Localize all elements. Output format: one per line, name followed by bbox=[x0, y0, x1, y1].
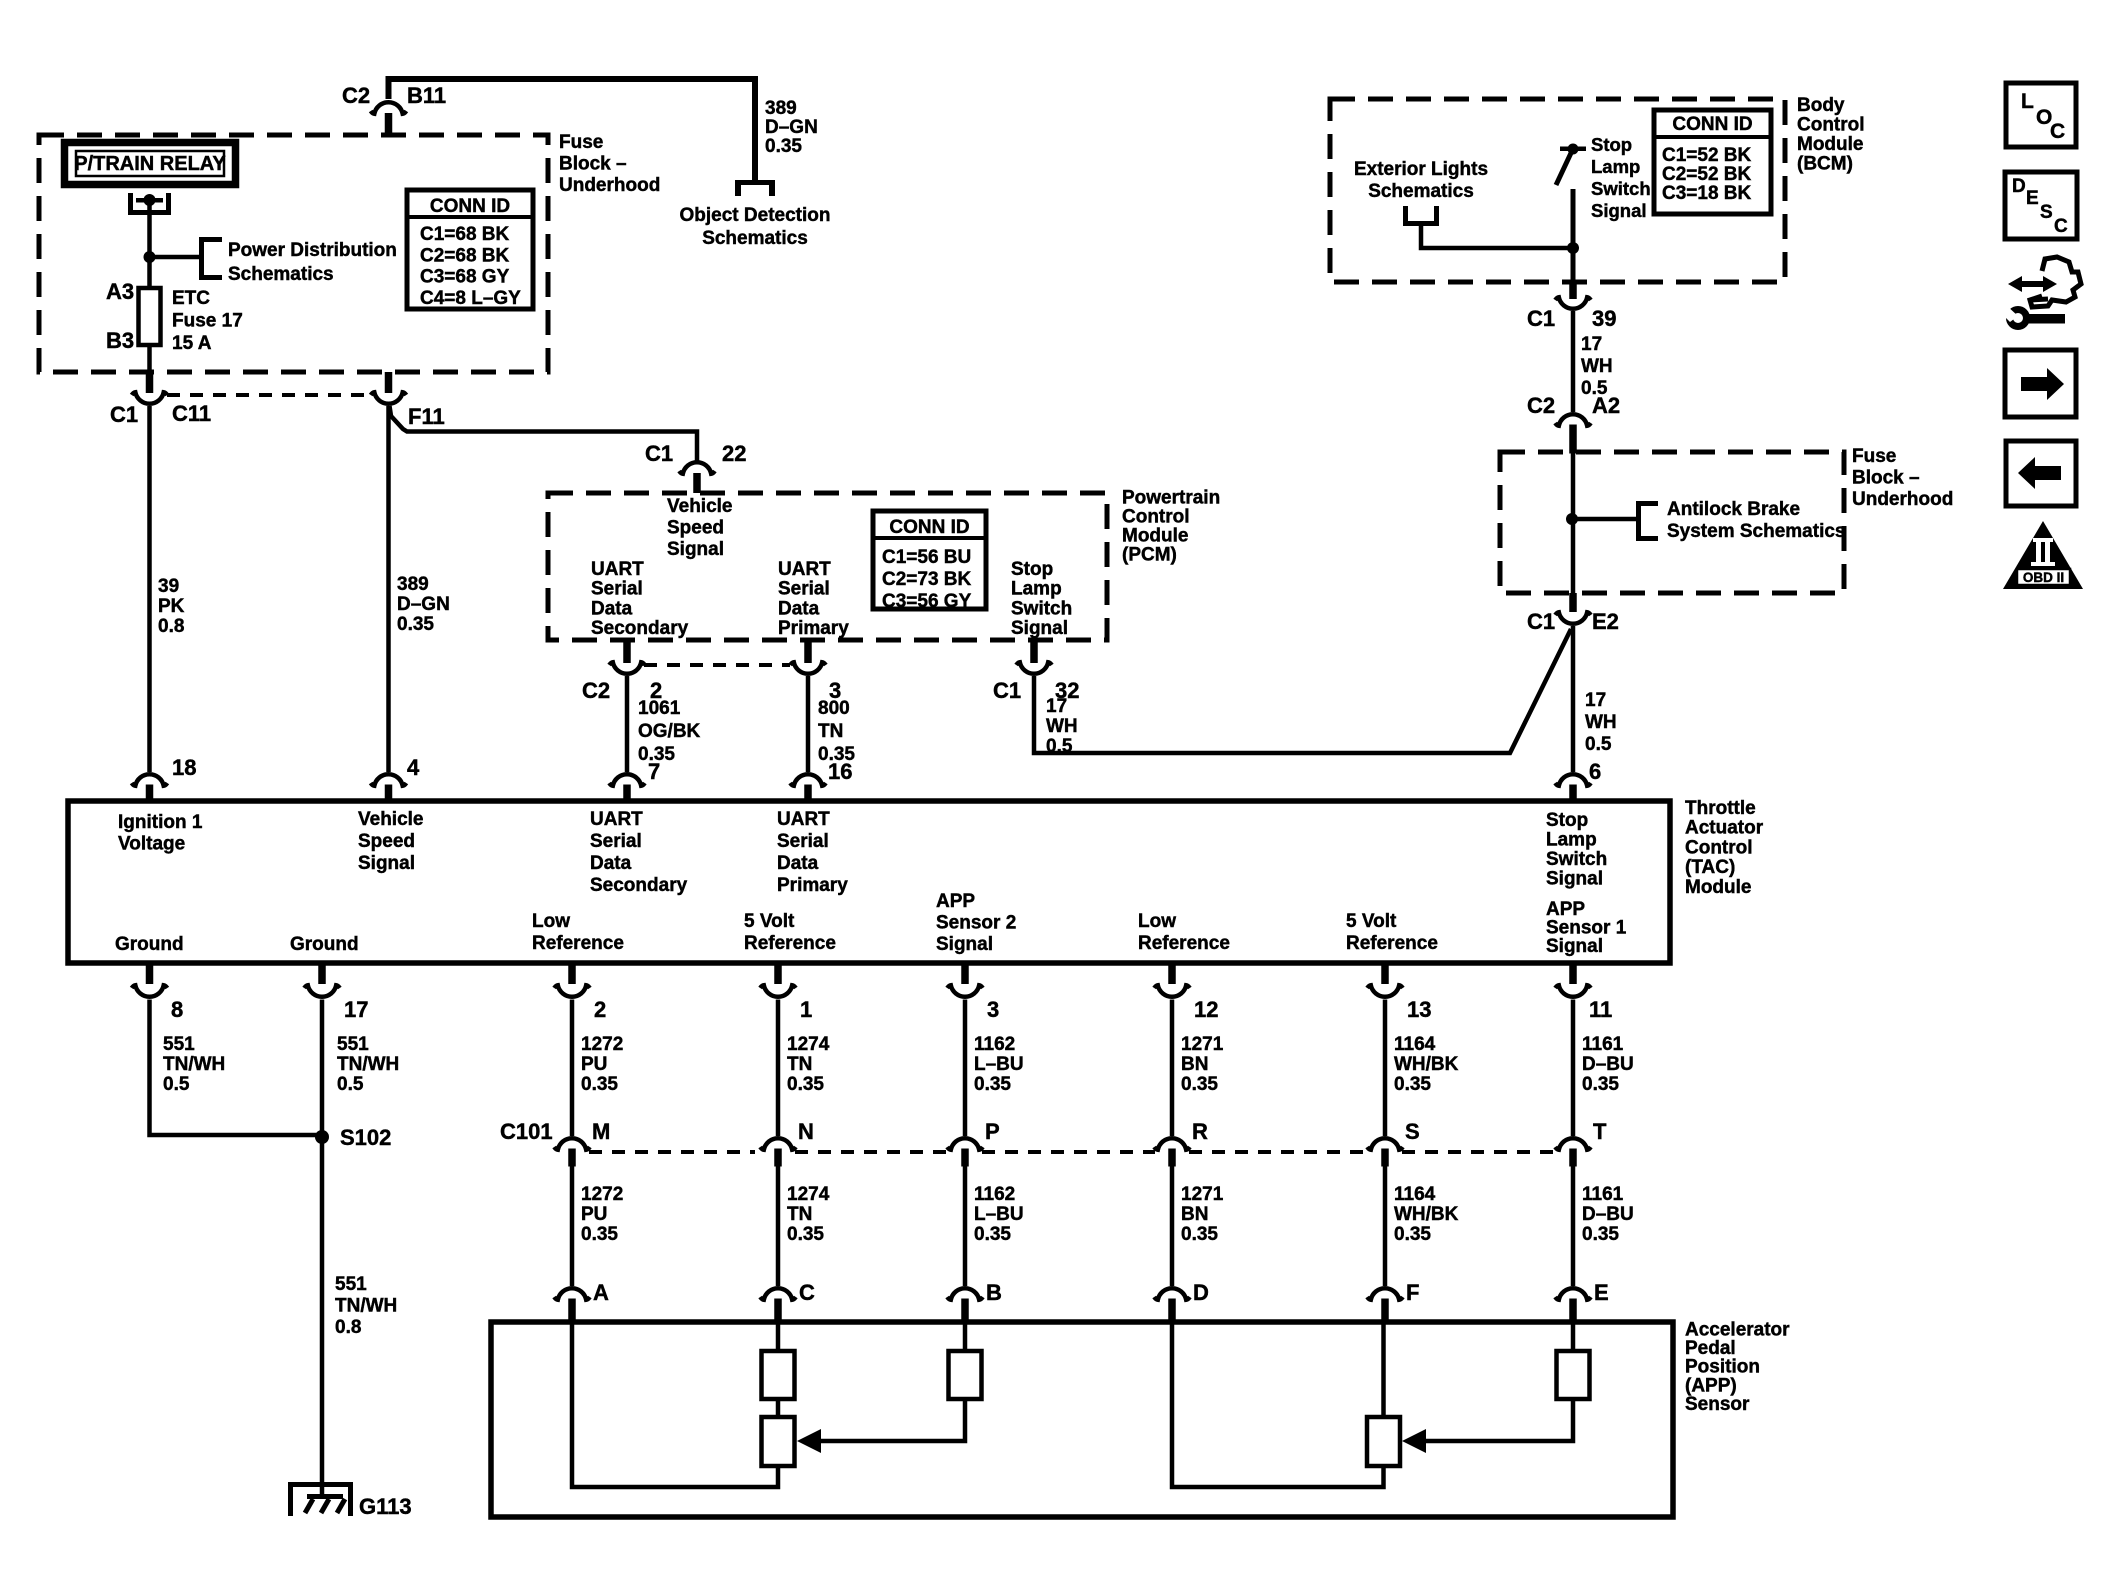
connector pin 12 bbox=[1168, 963, 1176, 984]
P/TRAIN RELAY label box bbox=[65, 143, 236, 185]
wire column T bbox=[1571, 1000, 1576, 1137]
svg-text:A3: A3 bbox=[106, 279, 134, 304]
svg-text:CONN ID: CONN ID bbox=[889, 517, 969, 538]
svg-text:CONN ID: CONN ID bbox=[430, 196, 510, 217]
svg-text:1272: 1272 bbox=[581, 1184, 623, 1205]
svg-text:1162: 1162 bbox=[974, 1034, 1015, 1055]
svg-text:PU: PU bbox=[581, 1204, 607, 1225]
svg-text:Module: Module bbox=[1797, 134, 1864, 155]
svg-text:22: 22 bbox=[722, 441, 746, 466]
svg-text:S102: S102 bbox=[340, 1125, 391, 1150]
wire 17 WH BCM to fuse block bbox=[1571, 311, 1576, 412]
connector pin 17 bbox=[318, 963, 326, 984]
icon back arrow bbox=[2006, 441, 2076, 506]
svg-text:C2: C2 bbox=[342, 83, 370, 108]
svg-text:Module: Module bbox=[1685, 877, 1752, 898]
svg-text:0.35: 0.35 bbox=[1394, 1074, 1431, 1095]
node junction to power distribution bbox=[144, 251, 156, 263]
svg-text:8: 8 bbox=[171, 997, 183, 1022]
svg-text:Primary: Primary bbox=[778, 618, 849, 639]
svg-text:Antilock Brake: Antilock Brake bbox=[1667, 499, 1800, 520]
svg-text:0.35: 0.35 bbox=[1394, 1224, 1431, 1245]
svg-text:E: E bbox=[2026, 188, 2039, 209]
svg-text:C1: C1 bbox=[645, 441, 673, 466]
wire column M bbox=[570, 1000, 575, 1137]
svg-text:P/TRAIN RELAY: P/TRAIN RELAY bbox=[74, 153, 226, 175]
wire ground pin 8 to S102 bbox=[150, 1000, 319, 1136]
svg-text:Underhood: Underhood bbox=[559, 175, 660, 196]
accelerator pedal position APP sensor box bbox=[491, 1322, 1673, 1517]
svg-text:0.5: 0.5 bbox=[337, 1074, 364, 1095]
svg-text:E2: E2 bbox=[1592, 609, 1619, 634]
svg-text:Ground: Ground bbox=[115, 934, 184, 955]
svg-text:L: L bbox=[2021, 90, 2034, 113]
icon LOC bbox=[2006, 83, 2076, 147]
svg-text:Actuator: Actuator bbox=[1685, 818, 1764, 839]
svg-text:17: 17 bbox=[1046, 696, 1067, 717]
connector C bbox=[760, 1288, 796, 1300]
wire 39 PK to TAC pin 18 bbox=[147, 406, 152, 772]
svg-text:12: 12 bbox=[1194, 997, 1218, 1022]
wire column S bbox=[1383, 1000, 1388, 1137]
svg-text:(TAC): (TAC) bbox=[1685, 857, 1735, 878]
wire E APP sensor 1 signal bbox=[1571, 1322, 1576, 1351]
fuse block underhood dashed box bbox=[39, 135, 548, 372]
icon shift/jump with wrench bbox=[2000, 257, 2081, 327]
svg-text:WH: WH bbox=[1585, 712, 1617, 733]
power distribution schematics pointer bracket bbox=[199, 237, 222, 280]
svg-text:0.35: 0.35 bbox=[787, 1224, 824, 1245]
connector 7 bbox=[609, 774, 645, 786]
svg-text:Lamp: Lamp bbox=[1546, 830, 1597, 851]
svg-text:A: A bbox=[593, 1280, 609, 1305]
svg-text:1162: 1162 bbox=[974, 1184, 1015, 1205]
svg-text:C1: C1 bbox=[110, 402, 138, 427]
svg-text:Ignition 1: Ignition 1 bbox=[118, 812, 203, 833]
svg-text:C2=68 BK: C2=68 BK bbox=[420, 245, 510, 266]
PCM pin 3 connector bbox=[804, 641, 812, 663]
svg-text:Low: Low bbox=[532, 911, 570, 932]
svg-text:TN: TN bbox=[787, 1054, 812, 1075]
wire 389 D-GN to TAC pin 4 bbox=[386, 406, 391, 772]
svg-text:0.8: 0.8 bbox=[335, 1317, 361, 1338]
wire C 5 volt reference bbox=[776, 1322, 781, 1351]
splice S102 bbox=[315, 1130, 329, 1144]
svg-text:Powertrain: Powertrain bbox=[1122, 488, 1220, 509]
svg-text:Secondary: Secondary bbox=[591, 618, 689, 639]
svg-text:System Schematics: System Schematics bbox=[1667, 521, 1846, 542]
svg-text:T: T bbox=[1593, 1119, 1607, 1144]
svg-text:WH: WH bbox=[1581, 356, 1613, 377]
svg-text:Fuse: Fuse bbox=[1852, 446, 1896, 467]
connector F bbox=[1367, 1288, 1403, 1300]
svg-text:WH/BK: WH/BK bbox=[1394, 1204, 1459, 1225]
svg-text:C11: C11 bbox=[172, 401, 211, 426]
svg-text:389: 389 bbox=[765, 98, 797, 119]
svg-text:0.35: 0.35 bbox=[974, 1224, 1011, 1245]
svg-text:Reference: Reference bbox=[1346, 933, 1438, 954]
svg-text:TN/WH: TN/WH bbox=[163, 1054, 225, 1075]
connector 16 bbox=[790, 774, 826, 786]
svg-text:389: 389 bbox=[397, 574, 429, 595]
svg-text:16: 16 bbox=[828, 759, 852, 784]
PCM pin C2 2 connector bbox=[623, 641, 631, 663]
connector pin 8 bbox=[146, 963, 154, 984]
svg-text:Signal: Signal bbox=[1011, 618, 1068, 639]
svg-text:D–BU: D–BU bbox=[1582, 1204, 1634, 1225]
fuse block underhood (right) dashed box bbox=[1500, 452, 1844, 593]
connector C1 39 bbox=[1569, 282, 1577, 299]
svg-text:Lamp: Lamp bbox=[1591, 156, 1640, 177]
wire column R bbox=[1170, 1000, 1175, 1137]
svg-text:17: 17 bbox=[344, 997, 368, 1022]
node junction fuse block bbox=[1566, 513, 1578, 525]
svg-text:B3: B3 bbox=[106, 328, 134, 353]
wire switch to BCM edge bbox=[1571, 189, 1576, 282]
svg-text:Module: Module bbox=[1122, 526, 1189, 547]
svg-text:2: 2 bbox=[594, 997, 606, 1022]
svg-text:0.5: 0.5 bbox=[163, 1074, 190, 1095]
potentiometer APP2 wiper element bbox=[762, 1417, 795, 1466]
svg-text:Signal: Signal bbox=[936, 934, 993, 955]
throttle actuator control TAC module box bbox=[68, 801, 1670, 963]
svg-text:C4=8 L–GY: C4=8 L–GY bbox=[420, 288, 521, 309]
svg-text:WH: WH bbox=[1046, 716, 1078, 737]
svg-text:1: 1 bbox=[800, 997, 812, 1022]
svg-text:C: C bbox=[799, 1280, 815, 1305]
svg-text:D–BU: D–BU bbox=[1582, 1054, 1634, 1075]
svg-text:Signal: Signal bbox=[1591, 200, 1647, 221]
svg-text:OBD II: OBD II bbox=[2023, 570, 2064, 585]
svg-text:UART: UART bbox=[590, 809, 643, 830]
wire to power distribution bracket bbox=[150, 255, 200, 260]
svg-text:M: M bbox=[592, 1119, 610, 1144]
connector A bbox=[554, 1288, 590, 1300]
wire relay to fuse bbox=[147, 200, 152, 288]
wire 17 WH from PCM to E2 junction bbox=[1034, 629, 1571, 753]
svg-text:E: E bbox=[1594, 1280, 1609, 1305]
connector C1 22 bbox=[679, 462, 715, 474]
svg-text:1272: 1272 bbox=[581, 1034, 623, 1055]
svg-text:Speed: Speed bbox=[358, 831, 415, 852]
svg-text:C: C bbox=[2054, 216, 2068, 237]
svg-text:A2: A2 bbox=[1592, 393, 1620, 418]
svg-text:1061: 1061 bbox=[638, 698, 681, 719]
node junction BCM bbox=[1567, 242, 1579, 254]
svg-text:1164: 1164 bbox=[1394, 1034, 1436, 1055]
svg-text:C3=56 GY: C3=56 GY bbox=[882, 591, 972, 612]
connector pin 11 bbox=[1569, 963, 1577, 984]
svg-text:Stop: Stop bbox=[1011, 559, 1053, 580]
svg-text:UART: UART bbox=[777, 809, 830, 830]
svg-text:Data: Data bbox=[591, 598, 633, 619]
svg-text:Exterior Lights: Exterior Lights bbox=[1354, 159, 1488, 180]
svg-text:B: B bbox=[986, 1280, 1002, 1305]
svg-text:7: 7 bbox=[648, 759, 660, 784]
connector C101 S bbox=[1367, 1138, 1403, 1150]
potentiometer APP1 wiper element bbox=[1367, 1417, 1400, 1466]
dashed link PCM C2 pins bbox=[644, 663, 790, 667]
svg-text:D–GN: D–GN bbox=[765, 117, 818, 138]
svg-text:D: D bbox=[1193, 1280, 1209, 1305]
icon OBD II bbox=[2003, 521, 2083, 589]
wire A low reference bbox=[572, 1322, 778, 1487]
svg-text:551: 551 bbox=[337, 1034, 369, 1055]
wire E2 to TAC pin 6 bbox=[1571, 626, 1576, 772]
svg-text:Data: Data bbox=[778, 598, 820, 619]
wire fuse to C1 connector bbox=[147, 345, 152, 372]
svg-text:1274: 1274 bbox=[787, 1184, 830, 1205]
svg-text:Control: Control bbox=[1685, 837, 1753, 858]
svg-text:39: 39 bbox=[158, 576, 179, 597]
dashed link C101 row bbox=[589, 1150, 755, 1154]
connector C101 R bbox=[1154, 1138, 1190, 1150]
wire F 5 volt reference bbox=[1381, 1322, 1386, 1417]
wire D low reference bbox=[1172, 1322, 1384, 1487]
conn id table (BCM) bbox=[1654, 110, 1771, 214]
svg-text:TN: TN bbox=[787, 1204, 812, 1225]
svg-text:Schematics: Schematics bbox=[702, 228, 808, 249]
svg-text:15 A: 15 A bbox=[172, 333, 212, 354]
svg-text:(PCM): (PCM) bbox=[1122, 545, 1177, 566]
svg-text:Switch: Switch bbox=[1546, 849, 1607, 870]
svg-text:C1: C1 bbox=[1527, 306, 1555, 331]
svg-text:Serial: Serial bbox=[590, 831, 642, 852]
svg-text:R: R bbox=[1192, 1119, 1208, 1144]
svg-text:1274: 1274 bbox=[787, 1034, 830, 1055]
svg-text:C3=18 BK: C3=18 BK bbox=[1662, 183, 1752, 204]
connector C101 T bbox=[1555, 1138, 1591, 1150]
svg-text:S: S bbox=[2040, 202, 2053, 223]
svg-text:18: 18 bbox=[172, 755, 196, 780]
svg-text:BN: BN bbox=[1181, 1054, 1208, 1075]
wire exterior lights to junction bbox=[1421, 226, 1573, 248]
svg-text:S: S bbox=[1405, 1119, 1420, 1144]
wiper arrow APP2 bbox=[809, 1399, 965, 1441]
svg-text:Serial: Serial bbox=[777, 831, 829, 852]
svg-text:TN/WH: TN/WH bbox=[335, 1296, 397, 1317]
svg-text:C101: C101 bbox=[500, 1119, 553, 1144]
svg-text:C2=52 BK: C2=52 BK bbox=[1662, 164, 1752, 185]
icon forward arrow bbox=[2005, 350, 2076, 417]
svg-text:Stop: Stop bbox=[1591, 134, 1632, 155]
svg-text:Reference: Reference bbox=[744, 933, 836, 954]
body control module dashed box bbox=[1330, 99, 1785, 282]
wire 800 TN bbox=[806, 676, 811, 772]
svg-text:C1=52 BK: C1=52 BK bbox=[1662, 145, 1752, 166]
svg-text:WH/BK: WH/BK bbox=[1394, 1054, 1459, 1075]
svg-text:17: 17 bbox=[1581, 334, 1602, 355]
object detection schematics pointer bracket bbox=[735, 180, 775, 196]
svg-text:PU: PU bbox=[581, 1054, 607, 1075]
svg-text:CONN ID: CONN ID bbox=[1672, 114, 1752, 135]
svg-text:P: P bbox=[985, 1119, 1000, 1144]
wire column N bbox=[776, 1000, 781, 1137]
svg-text:0.35: 0.35 bbox=[974, 1074, 1011, 1095]
svg-text:Sensor 2: Sensor 2 bbox=[936, 913, 1016, 934]
svg-text:Serial: Serial bbox=[591, 579, 643, 600]
svg-text:BN: BN bbox=[1181, 1204, 1208, 1225]
svg-text:5 Volt: 5 Volt bbox=[1346, 911, 1397, 932]
svg-text:1271: 1271 bbox=[1181, 1034, 1224, 1055]
svg-text:800: 800 bbox=[818, 698, 850, 719]
wire top B11 to object detection bbox=[389, 79, 756, 180]
svg-text:TN: TN bbox=[818, 721, 843, 742]
connector 6 bbox=[1555, 774, 1591, 786]
dashed link C11-F11 bbox=[167, 393, 371, 397]
svg-text:0.35: 0.35 bbox=[1181, 1224, 1218, 1245]
svg-text:C1: C1 bbox=[1527, 609, 1555, 634]
svg-text:Low: Low bbox=[1138, 911, 1176, 932]
svg-text:UART: UART bbox=[778, 559, 831, 580]
svg-text:Secondary: Secondary bbox=[590, 875, 688, 896]
svg-text:Switch: Switch bbox=[1591, 178, 1651, 199]
wire through fuse block bbox=[1571, 452, 1576, 593]
conn id table (PCM) bbox=[873, 511, 986, 609]
svg-text:C1=68 BK: C1=68 BK bbox=[420, 224, 510, 245]
svg-text:D–GN: D–GN bbox=[397, 594, 450, 615]
wire 1061 OG/BK bbox=[625, 676, 630, 772]
svg-text:17: 17 bbox=[1585, 690, 1606, 711]
connector C1 C11 bbox=[146, 372, 154, 393]
wire 389 D-GN branch to PCM C1 22 bbox=[390, 406, 698, 461]
svg-text:1164: 1164 bbox=[1394, 1184, 1436, 1205]
svg-text:C2: C2 bbox=[582, 678, 610, 703]
svg-text:Data: Data bbox=[777, 853, 819, 874]
svg-text:Underhood: Underhood bbox=[1852, 489, 1953, 510]
resistor APP1 series bbox=[1557, 1351, 1590, 1399]
svg-text:Primary: Primary bbox=[777, 875, 848, 896]
svg-text:0.35: 0.35 bbox=[1582, 1224, 1619, 1245]
svg-text:Switch: Switch bbox=[1011, 598, 1072, 619]
svg-text:C2=73 BK: C2=73 BK bbox=[882, 569, 972, 590]
svg-text:0.8: 0.8 bbox=[158, 616, 184, 637]
svg-text:Block –: Block – bbox=[1852, 468, 1920, 489]
svg-text:Object Detection: Object Detection bbox=[680, 205, 831, 226]
svg-text:ETC: ETC bbox=[172, 288, 210, 309]
connector pin 2 bbox=[568, 963, 576, 984]
svg-text:0.35: 0.35 bbox=[581, 1224, 618, 1245]
resistor APP2 series bbox=[949, 1351, 982, 1399]
svg-text:Reference: Reference bbox=[532, 933, 624, 954]
svg-text:551: 551 bbox=[335, 1274, 367, 1295]
connector F11 bbox=[385, 372, 393, 393]
connector C101 M bbox=[554, 1138, 590, 1150]
svg-text:F: F bbox=[1406, 1280, 1419, 1305]
wire B APP sensor 2 signal bbox=[963, 1322, 968, 1351]
svg-text:UART: UART bbox=[591, 559, 644, 580]
connector C1 E2 bbox=[1569, 593, 1577, 612]
powertrain control module dashed box bbox=[548, 493, 1107, 640]
conn id table (fuse block underhood) bbox=[407, 190, 533, 309]
svg-text:C2: C2 bbox=[1527, 393, 1555, 418]
svg-text:Body: Body bbox=[1797, 95, 1845, 116]
svg-text:1161: 1161 bbox=[1582, 1184, 1624, 1205]
svg-text:Throttle: Throttle bbox=[1685, 798, 1756, 819]
svg-text:13: 13 bbox=[1407, 997, 1431, 1022]
svg-text:Sensor: Sensor bbox=[1685, 1394, 1750, 1415]
svg-text:3: 3 bbox=[987, 997, 999, 1022]
svg-text:0.35: 0.35 bbox=[397, 614, 434, 635]
svg-text:0.5: 0.5 bbox=[1585, 734, 1612, 755]
svg-text:Control: Control bbox=[1122, 507, 1190, 528]
svg-text:TN/WH: TN/WH bbox=[337, 1054, 399, 1075]
svg-text:4: 4 bbox=[407, 755, 420, 780]
svg-text:Schematics: Schematics bbox=[1368, 181, 1474, 202]
svg-text:OG/BK: OG/BK bbox=[638, 721, 701, 742]
svg-text:1161: 1161 bbox=[1582, 1034, 1624, 1055]
svg-text:Reference: Reference bbox=[1138, 933, 1230, 954]
icon DESC bbox=[2005, 172, 2077, 239]
svg-text:L–BU: L–BU bbox=[974, 1054, 1024, 1075]
ground G113 bbox=[288, 1482, 353, 1516]
relay contact K1 bbox=[128, 193, 171, 215]
connector pin 1 bbox=[774, 963, 782, 984]
svg-text:0.35: 0.35 bbox=[581, 1074, 618, 1095]
connector 4 bbox=[371, 774, 407, 786]
svg-text:0.35: 0.35 bbox=[765, 136, 802, 157]
svg-text:5 Volt: 5 Volt bbox=[744, 911, 795, 932]
svg-text:N: N bbox=[798, 1119, 814, 1144]
stop lamp switch SW bbox=[1556, 144, 1586, 186]
svg-text:Fuse: Fuse bbox=[559, 132, 603, 153]
svg-text:C1: C1 bbox=[993, 678, 1021, 703]
svg-text:PK: PK bbox=[158, 596, 185, 617]
antilock brake pointer bracket bbox=[1636, 501, 1658, 541]
svg-text:Data: Data bbox=[590, 853, 632, 874]
wiper arrow APP1 bbox=[1414, 1399, 1573, 1441]
svg-text:B11: B11 bbox=[407, 83, 446, 108]
connector pin 13 bbox=[1381, 963, 1389, 984]
svg-text:F11: F11 bbox=[408, 404, 445, 429]
connector E bbox=[1555, 1288, 1591, 1300]
svg-text:Ground: Ground bbox=[290, 934, 359, 955]
svg-text:Signal: Signal bbox=[667, 539, 724, 560]
svg-text:0.35: 0.35 bbox=[1582, 1074, 1619, 1095]
svg-text:(BCM): (BCM) bbox=[1797, 154, 1853, 175]
connector B bbox=[947, 1288, 983, 1300]
svg-text:39: 39 bbox=[1592, 306, 1616, 331]
svg-text:Signal: Signal bbox=[1546, 936, 1603, 957]
svg-text:L–BU: L–BU bbox=[974, 1204, 1024, 1225]
svg-text:Control: Control bbox=[1797, 115, 1865, 136]
wire ground pin 17 to G113 bbox=[320, 1000, 325, 1496]
connector C101 N bbox=[760, 1138, 796, 1150]
svg-text:Power Distribution: Power Distribution bbox=[228, 240, 397, 261]
exterior lights pointer bracket bbox=[1403, 206, 1439, 226]
connector pin 3 bbox=[961, 963, 969, 984]
svg-text:551: 551 bbox=[163, 1034, 195, 1055]
svg-text:6: 6 bbox=[1589, 759, 1601, 784]
svg-text:Speed: Speed bbox=[667, 518, 724, 539]
svg-text:APP: APP bbox=[936, 891, 975, 912]
svg-text:Signal: Signal bbox=[358, 853, 415, 874]
svg-text:G113: G113 bbox=[359, 1494, 412, 1519]
svg-text:Fuse 17: Fuse 17 bbox=[172, 311, 243, 332]
svg-text:C: C bbox=[2050, 120, 2065, 143]
connector 18 bbox=[132, 774, 168, 786]
svg-text:0.35: 0.35 bbox=[1181, 1074, 1218, 1095]
svg-text:D: D bbox=[2012, 176, 2026, 197]
svg-text:Serial: Serial bbox=[778, 579, 830, 600]
svg-text:C1=56 BU: C1=56 BU bbox=[882, 547, 971, 568]
svg-text:Lamp: Lamp bbox=[1011, 579, 1062, 600]
svg-text:Schematics: Schematics bbox=[228, 264, 334, 285]
svg-text:Voltage: Voltage bbox=[118, 834, 185, 855]
PCM pin C1 32 connector bbox=[1030, 641, 1038, 663]
connector C2 B11 bbox=[371, 102, 407, 114]
svg-text:11: 11 bbox=[1589, 997, 1612, 1022]
